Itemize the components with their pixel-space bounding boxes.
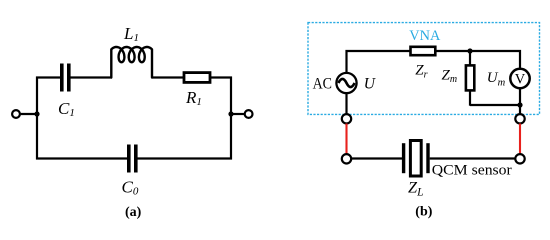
svg-text:(a): (a) bbox=[125, 205, 142, 220]
wire bottom rail left of C0 bbox=[36, 157, 128, 159]
svg-text:V: V bbox=[515, 72, 526, 88]
wire node to right port bbox=[231, 113, 244, 115]
crystal ZL body bbox=[410, 141, 421, 177]
capacitor C1 bbox=[62, 64, 69, 92]
svg-text:(b): (b) bbox=[415, 205, 432, 220]
junction node left bbox=[34, 111, 39, 116]
wire top rail to C1 bbox=[36, 76, 61, 78]
upper left port terminal bbox=[342, 114, 351, 123]
wire Zm down to bottom rail bbox=[469, 90, 471, 105]
wire bottom rail right of C0 bbox=[137, 157, 232, 159]
VNA dashed box bbox=[308, 23, 540, 115]
wire Zr to corner above voltmeter bbox=[435, 50, 470, 52]
resistor R1 bbox=[184, 73, 210, 83]
wire from left port to node bbox=[21, 113, 37, 115]
wire AC bottom to left port bbox=[345, 94, 347, 114]
red wire right bbox=[519, 124, 521, 155]
svg-text:AC: AC bbox=[313, 75, 332, 92]
AC source U bbox=[336, 73, 356, 93]
svg-text:QCM sensor: QCM sensor bbox=[432, 162, 512, 178]
wire C1 to L1 bbox=[71, 76, 113, 78]
inductor L1 bbox=[111, 47, 152, 78]
svg-text:U: U bbox=[364, 75, 377, 92]
right terminal port of circuit (a) bbox=[245, 110, 253, 118]
voltmeter Um bbox=[510, 69, 529, 88]
resistor Zm bbox=[466, 65, 474, 90]
wire AC riser up and top rail to Zr bbox=[347, 51, 411, 73]
wire R1 to right corner bbox=[210, 76, 232, 78]
left terminal port of circuit (a) bbox=[12, 110, 20, 118]
svg-text:VNA: VNA bbox=[409, 28, 441, 44]
wire crystal to lower right port bbox=[430, 157, 516, 159]
junction node right bbox=[228, 111, 233, 116]
crystal ZL right plate bbox=[426, 143, 429, 173]
junction node bottom right bbox=[517, 102, 522, 107]
wire right vertical branch bbox=[230, 77, 232, 160]
junction node top bbox=[467, 48, 472, 53]
capacitor C0 bbox=[129, 145, 136, 173]
lower left port terminal bbox=[342, 154, 351, 163]
lower right port terminal bbox=[515, 154, 524, 163]
resistor Zr bbox=[411, 47, 436, 55]
wire bottom rail to voltmeter junction bbox=[470, 104, 520, 106]
wire voltmeter bottom to junction bbox=[519, 88, 521, 114]
upper right port terminal bbox=[515, 114, 524, 123]
wire node to voltmeter drop bbox=[470, 51, 520, 68]
wire L1 to R1 bbox=[152, 76, 184, 78]
wire lower left port to crystal bbox=[352, 157, 403, 159]
red wire left bbox=[345, 124, 347, 154]
wire left vertical branch bbox=[36, 77, 38, 160]
crystal ZL left plate bbox=[402, 143, 405, 173]
wire node down to Zm bbox=[469, 51, 471, 66]
